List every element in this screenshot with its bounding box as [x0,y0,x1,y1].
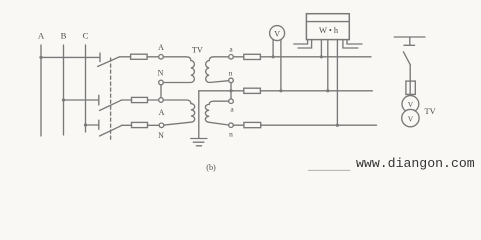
pin current coil left inner [298,40,312,48]
junction voltmeter-wire2 [279,89,282,92]
terminal n2 [229,123,234,128]
svg-text:TV: TV [425,107,436,116]
wire fuse to terminal A2 [148,99,159,101]
svg-text:N: N [158,131,164,140]
junction bus C [84,123,87,126]
svg-text:www.diangon.com: www.diangon.com [356,156,475,171]
caption (b) [206,163,216,172]
wire branch3 from bus C [86,124,99,126]
ground [191,139,207,146]
svg-text:C: C [83,31,89,41]
switch linkage dashed [110,58,112,142]
switch QS4 blade [403,52,410,65]
wire ground drop [198,91,200,139]
junction pin1-wire1 [320,55,323,58]
switch QS4 fixed contact [404,44,415,46]
bus A [40,45,42,136]
switch QS3 blade [100,126,122,136]
svg-text:(b): (b) [206,163,216,172]
svg-text:V: V [408,100,414,109]
svg-text:a: a [229,45,233,54]
svg-text:A: A [38,31,45,41]
pin current coil left outer [294,40,308,44]
wire blade to fuse [121,124,131,126]
svg-text:n: n [229,130,233,139]
TV single-line symbol circle 1 [402,96,419,113]
terminal a1 [229,55,234,60]
pin voltage 3 [336,40,338,126]
watt-hour meter PJ body [306,14,349,40]
wire branch1 from bus A [41,56,100,58]
terminal N2 [159,123,164,128]
TV2 primary winding [163,100,194,125]
svg-text:V: V [408,114,414,123]
junction pin2-wire2 [326,89,329,92]
TV label [192,45,203,54]
wire n1 to a2 link [230,83,232,99]
junction pin3-wire3 [336,124,339,127]
terminal N1 [159,80,164,85]
svg-text:W • h: W • h [319,26,339,35]
terminal a1 label [229,45,233,54]
wire blade to fuse [409,64,411,95]
wire2 neutral tap [199,90,244,92]
wire3 to right [261,124,377,126]
terminal A1 [159,55,164,60]
svg-text:n: n [229,69,233,78]
terminal N1 label [158,69,164,78]
fuse FU2 [132,97,148,102]
terminal a2 [229,99,234,104]
underline mark [308,169,350,171]
wire2 to right [260,90,372,92]
terminal n1 label [229,69,233,78]
terminal N2 label [158,131,164,140]
wire blade to fuse [121,99,131,101]
pin voltage 2 [327,40,329,91]
terminal A2 [159,98,164,103]
junction bus B [62,98,65,101]
terminal n2 label [229,130,233,139]
node C label [83,31,89,41]
bus B [63,45,65,135]
voltmeter PV [270,26,285,41]
switch QS1 blade [98,57,120,67]
wire branch2 from bus B [64,99,99,101]
switch QS2 fixed contact [98,95,100,105]
TV label right [425,107,436,116]
fuse FU3 [132,122,148,127]
terminal A2 label [159,108,165,117]
wire voltmeter right lead [280,40,282,91]
fuse FU5 [244,88,261,93]
busbar right diagram [394,36,425,38]
TV single-line symbol circle 2 [402,109,419,126]
TV1 primary winding [163,57,194,83]
svg-text:B: B [61,31,67,41]
terminal A1 label [158,43,164,52]
svg-text:N: N [158,69,164,78]
wire1 to right [260,56,371,58]
junction n-a link [229,89,232,92]
node A label [38,31,45,41]
wire fuse to terminal A [147,56,159,58]
pin current coil right outer [347,40,362,44]
node B label [61,31,67,41]
svg-text:A: A [158,43,164,52]
wire bus tap [409,37,411,45]
svg-text:V: V [274,29,280,38]
wire3 secondary n [233,124,244,126]
wire voltmeter left lead [272,40,274,57]
junction bus A [39,56,42,59]
fuse FU1 [131,54,148,59]
wire N1 to A2 link [160,85,162,98]
fuse FU4 [244,54,261,59]
switch QS2 blade [100,100,122,110]
watermark www.diangon.com [356,156,475,171]
wire1 secondary a [233,56,244,58]
svg-text:a: a [230,105,234,114]
switch QS3 fixed contact [98,120,100,129]
TV2 secondary winding [205,101,228,125]
switch QS1 fixed contact [99,53,101,62]
TV1 secondary winding [206,57,229,83]
fuse FU6 [244,122,261,127]
junction voltmeter-wire1 [272,55,275,58]
watt-hour meter header line [306,21,349,23]
terminal a2 label [230,105,234,114]
terminal n1 [229,78,234,83]
pin voltage 1 [320,40,322,57]
fuse FU7 [406,81,415,94]
svg-text:A: A [159,108,165,117]
svg-text:TV: TV [192,45,203,54]
wire blade to fuse [119,56,130,58]
wire fuse to terminal N2 [148,124,160,126]
bus C [85,45,87,132]
pin current coil right inner [343,40,358,48]
watt-hour meter label [319,26,339,35]
